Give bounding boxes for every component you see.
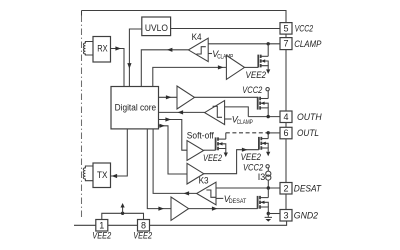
wire VCC2 terminal to FET drain (267, 91, 269, 99)
wire RX to digital core (111, 49, 125, 87)
wire OUTH buffer to pull-up FET gate (195, 96, 258, 98)
svg-text:DESAT: DESAT (229, 198, 247, 205)
pin 5 VCC2 (280, 23, 292, 34)
wire VCC2 terminal to I3 (267, 168, 269, 171)
pin 7 CLAMP (280, 38, 292, 50)
svg-text:2: 2 (283, 183, 288, 193)
svg-text:VEE2: VEE2 (133, 231, 152, 241)
wire K3 sense input from DESAT node (216, 187, 280, 189)
comparator VCLAMP sense (OUTH) (205, 101, 225, 125)
transistor soft-off NMOS (216, 137, 226, 152)
arrow right on soft-off feed (165, 117, 171, 121)
svg-text:K3: K3 (199, 175, 209, 185)
arrow left on K4 output (167, 48, 173, 52)
svg-text:7: 7 (283, 39, 288, 49)
UVLO box (142, 17, 171, 36)
RX box (93, 37, 111, 63)
V_DESAT reference stub K3 (216, 197, 223, 199)
node CLAMP wire K4 input to pin 7 (208, 43, 280, 45)
wire OUTL buffer to pull-down FET gate (204, 150, 259, 174)
wire source node to pin 3 (268, 213, 280, 215)
clamp driver buffer (226, 55, 244, 79)
current source I3 (266, 171, 271, 176)
wire I3 to DESAT node (267, 180, 269, 188)
VCC2 terminal (OUTH FET) (266, 88, 269, 91)
wire soft-off FET drain up to dashed OUTL line (225, 133, 227, 139)
VEE2 supply arrow (soft-off FET) (224, 153, 228, 158)
svg-text:UVLO: UVLO (145, 23, 168, 33)
VEE2 rail (74, 221, 287, 225)
DESAT blanking buffer (171, 197, 189, 220)
svg-text:3: 3 (283, 210, 288, 220)
wire dashed soft-off to OUTL node (226, 132, 268, 134)
wire pin4 to pin6 (285, 123, 287, 128)
svg-text:CLAMP: CLAMP (237, 119, 253, 126)
junction CLAMP node (267, 42, 270, 45)
wire digital core to OUTL buffer (159, 126, 188, 174)
pin 1 VEE2 (96, 220, 108, 232)
svg-text:5: 5 (283, 23, 288, 33)
svg-text:4: 4 (283, 112, 288, 122)
pin 2 DESAT (280, 183, 292, 195)
comparator K4 (188, 38, 208, 61)
arrow down on UVLO wire (127, 63, 131, 69)
svg-text:TX: TX (97, 170, 107, 180)
wire comparator sense input from OUTH node (225, 107, 249, 117)
TX coil (83, 166, 93, 181)
arrow right on clamp driver wire (218, 65, 224, 69)
svg-text:OUTH: OUTH (297, 112, 322, 122)
transistor clamp NMOS (258, 55, 268, 70)
comparator K3 (197, 182, 216, 205)
junction OUTH node (267, 115, 270, 118)
wire OUTL node to pin 6 (268, 132, 280, 134)
arrow right on RX wire (115, 46, 121, 50)
svg-text:DESAT: DESAT (294, 183, 323, 193)
arrow left on K3 output (184, 191, 190, 195)
V_CLAMP reference stub K4 (208, 53, 212, 55)
arrow right into OUTH buffer (166, 95, 172, 99)
svg-text:VEE2: VEE2 (203, 153, 222, 163)
wire UVLO left to digital core (129, 29, 141, 87)
arrow right on OUTL buffer feed (159, 124, 165, 128)
OUTH driver buffer (177, 86, 195, 109)
wire pin6 to pin2 (285, 139, 287, 183)
node OUTH wire to pin 4 (248, 116, 280, 118)
wire DESAT FET drain to DESAT node (267, 188, 269, 198)
wire digital core to OUTH buffer (159, 96, 178, 98)
wire clamp driver to FET gate (245, 66, 259, 68)
arrow right on OUTL gate wire (242, 148, 248, 152)
wire linking pins 1 and 8 (102, 213, 144, 219)
VCC2 terminal (I3 source) (266, 165, 269, 168)
svg-text:K4: K4 (192, 32, 202, 42)
wire soft-off buffer to soft-off FET gate (204, 149, 216, 151)
svg-text:Soft-off: Soft-off (187, 130, 214, 140)
svg-text:Digital core: Digital core (115, 102, 157, 112)
pin 8 VEE2 (138, 220, 150, 232)
junction OUTL node (267, 131, 270, 134)
wire K4 output to digital core (141, 50, 188, 87)
svg-text:1: 1 (99, 220, 104, 230)
arrow right into DESAT buffer (158, 207, 164, 211)
TX box (93, 163, 111, 188)
wire K3 output to digital core (153, 129, 197, 194)
isolation barrier (dash-dot) (81, 11, 83, 16)
wire digital core to DESAT buffer (147, 129, 171, 209)
arrow left into TX (112, 174, 118, 178)
OUTL buffer (187, 163, 204, 184)
svg-text:8: 8 (141, 220, 146, 230)
svg-text:I3: I3 (258, 172, 266, 182)
svg-text:VCC2: VCC2 (295, 23, 314, 33)
border top (82, 11, 287, 23)
wire digital core to TX (111, 129, 128, 176)
arrow left on comparator output (178, 110, 184, 114)
wire UVLO right to pin 5 VCC2 (171, 28, 280, 30)
svg-text:OUTL: OUTL (297, 128, 319, 138)
svg-text:VCC2: VCC2 (242, 85, 262, 95)
transistor OUTH pull-up NMOS (258, 97, 269, 117)
wire pin2 to pin3 (285, 194, 287, 210)
wire digital core to soft-off buffer (159, 120, 188, 151)
svg-text:GND2: GND2 (294, 210, 318, 220)
svg-text:VEE2: VEE2 (92, 231, 111, 241)
wire CLAMP node down to clamp FET drain (267, 44, 269, 57)
transistor DESAT NMOS (258, 196, 269, 214)
pin 4 OUTH (280, 111, 292, 123)
wire pin7 to pin4 (285, 50, 287, 111)
svg-text:VEE2: VEE2 (246, 70, 267, 80)
V_CLAMP reference stub (comparator) (225, 118, 232, 120)
svg-text:6: 6 (283, 128, 288, 138)
ground (265, 214, 272, 218)
svg-text:VEE2: VEE2 (241, 152, 261, 162)
VEE2 supply arrow (clamp FET) (266, 69, 270, 74)
wire OUTL FET drain to OUTL node (267, 133, 269, 139)
pin 3 GND2 (280, 210, 292, 222)
junction DESAT node (267, 186, 270, 189)
wire DESAT buffer to DESAT FET gate (189, 208, 258, 210)
soft-off buffer (187, 141, 204, 161)
transistor OUTL pull-down NMOS (259, 137, 268, 152)
wire comparator output to digital core (159, 111, 205, 113)
svg-text:RX: RX (97, 44, 107, 54)
svg-text:CLAMP: CLAMP (294, 39, 321, 49)
wire pin5 to pin7 (285, 34, 287, 38)
wire digital core to clamp driver (153, 67, 227, 86)
junction DESAT FET source node (267, 212, 270, 215)
RX coil (83, 42, 93, 56)
VEE2 supply arrow (OUTL FET) (266, 152, 270, 157)
pin 6 OUTL (280, 127, 292, 139)
arrow right on DESAT gate wire (212, 207, 218, 211)
digital core box (111, 87, 159, 129)
junction on pin link (121, 212, 124, 215)
VEE2 up arrow (122, 208, 124, 214)
